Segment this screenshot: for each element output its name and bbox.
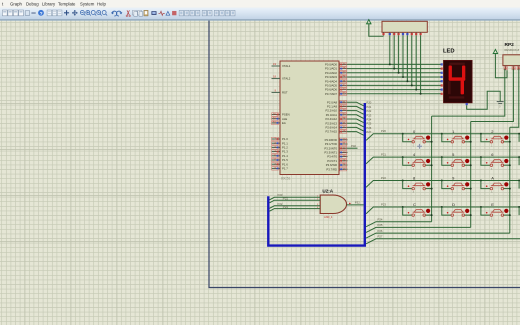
- pin 32 P0.7/AD7: [325, 91, 347, 96]
- push button column 4 partial: [518, 206, 520, 215]
- svg-text:P26: P26: [378, 229, 383, 233]
- push button 4: [402, 152, 433, 171]
- label LED: [443, 49, 455, 55]
- svg-text:P32: P32: [355, 201, 360, 205]
- wire P3.2/INT0 stub: [348, 144, 358, 148]
- pin 16 P3.6/WR: [326, 163, 348, 168]
- RP1 pin 3: [393, 32, 395, 35]
- svg-text:System: System: [80, 1, 95, 6]
- wire RP1 pin 9 to P0.7: [420, 36, 422, 95]
- wire AND input 2: [270, 199, 321, 203]
- net label P20: [278, 193, 283, 197]
- svg-text:P23: P23: [381, 202, 386, 206]
- svg-text:P21: P21: [283, 196, 288, 200]
- wire RP2 pull-up to keypad column 1: [432, 69, 505, 117]
- wire RP1 pin 4 to P0.2: [398, 36, 400, 74]
- mouse move cursor: [417, 143, 423, 149]
- wire AND output to bus: [347, 201, 364, 205]
- svg-text:RST: RST: [282, 91, 288, 95]
- wire RP1 pin 2 to P0.0: [389, 36, 391, 66]
- pin 4 P1.3: [272, 149, 289, 154]
- svg-text:P24: P24: [378, 218, 383, 222]
- 7-segment display: [444, 60, 473, 102]
- wire P2.0 to bus: [348, 101, 372, 106]
- svg-text:D: D: [452, 202, 455, 207]
- svg-text:XTAL1: XTAL1: [282, 64, 291, 68]
- resistor pack RP1: [382, 21, 427, 32]
- wire P2.2 to bus: [348, 109, 372, 114]
- pin 38 P0.1/AD1: [325, 66, 347, 71]
- svg-text:P25: P25: [378, 223, 383, 227]
- push button A: [480, 176, 511, 195]
- svg-text:Debug: Debug: [26, 1, 39, 6]
- wire keypad column 1 vertical: [431, 116, 433, 222]
- RP1 pin 9: [420, 32, 422, 35]
- push button column 4 partial: [518, 133, 520, 142]
- pin 39 P0.0/AD0: [325, 62, 347, 67]
- wire P0.7 to display: [348, 93, 442, 95]
- pin 21 P2.0/A8: [327, 100, 347, 105]
- svg-text:P3.7/RD: P3.7/RD: [326, 167, 337, 171]
- wire P0.1 to display: [348, 68, 442, 70]
- wire keypad column 2 vertical: [470, 122, 472, 228]
- wire P2.3 to bus: [348, 113, 372, 118]
- push button column 4 partial: [518, 180, 520, 189]
- pin 17 P3.7/RD: [326, 167, 347, 172]
- wire P0.4 to display: [348, 80, 442, 82]
- pin 37 P0.2/AD2: [325, 70, 347, 75]
- wire keypad row rail P20: [366, 129, 520, 140]
- pin 5 P1.4: [272, 153, 289, 158]
- RP1 pin 5: [402, 32, 404, 35]
- svg-text:P20: P20: [381, 129, 386, 133]
- push button column 4 partial: [518, 156, 520, 165]
- svg-text:E: E: [491, 202, 494, 207]
- pin 36 P0.3/AD3: [325, 75, 347, 80]
- display pin 7: [441, 89, 443, 91]
- svg-text:P22: P22: [381, 176, 386, 180]
- wire P2.7 to bus: [348, 130, 372, 135]
- wire AND input 4: [270, 207, 321, 211]
- menu bar: [0, 0, 520, 8]
- ground symbol: [497, 102, 504, 109]
- wire keypad column return P24: [366, 218, 432, 227]
- svg-text:Library: Library: [42, 1, 56, 6]
- wire keypad column 3 vertical: [509, 127, 511, 233]
- pin 27 P2.6/A14: [325, 125, 347, 130]
- wire keypad row rail P23: [366, 202, 520, 213]
- pin 22 P2.1/A9: [327, 104, 347, 109]
- pin 7 P1.6: [272, 162, 289, 167]
- wire P0.6 to display: [348, 89, 442, 91]
- wire keypad column return P27: [366, 235, 520, 244]
- svg-text:RESPACK-8: RESPACK-8: [505, 48, 520, 52]
- svg-text:A: A: [491, 176, 494, 181]
- RP2 pin 2: [512, 66, 515, 71]
- pin 3 P1.2: [272, 145, 289, 150]
- wire RP1 pin 6 to P0.4: [406, 36, 408, 83]
- sheet border: [209, 21, 520, 288]
- svg-text:19: 19: [273, 62, 276, 66]
- pin 24 P2.3/A11: [326, 112, 348, 117]
- net label P23: [283, 205, 288, 209]
- pin 12 P3.2/INT0: [324, 146, 347, 151]
- push button 8: [402, 176, 433, 195]
- svg-text:U2:A: U2:A: [322, 189, 333, 194]
- svg-text:P21: P21: [381, 153, 386, 157]
- wire P0.0 to display: [348, 63, 442, 65]
- wire RP1 pin 3 to P0.1: [393, 36, 395, 70]
- svg-text:P27: P27: [378, 235, 383, 239]
- wire keypad row rail P21: [366, 153, 520, 164]
- pin 14 P3.4/T0: [327, 154, 347, 159]
- wire AND input 3: [270, 204, 321, 208]
- wire RP2 pull-up to keypad column 3: [510, 69, 519, 128]
- svg-text:RP2: RP2: [505, 42, 515, 48]
- wire keypad row rail P22: [366, 176, 520, 187]
- display pin 8: [441, 93, 443, 95]
- pin 29 PSEN: [272, 112, 290, 117]
- wire P2.5 to bus: [348, 122, 372, 127]
- RP2 pin 3: [517, 66, 520, 71]
- push button 2: [480, 129, 511, 148]
- resistor pack RP2: [503, 55, 520, 66]
- svg-text:P0.7/AD7: P0.7/AD7: [325, 92, 337, 96]
- pin 8 P1.7: [272, 166, 289, 171]
- svg-text:XTAL2: XTAL2: [282, 77, 291, 81]
- pin 13 P3.3/INT1: [324, 150, 347, 155]
- display pin 3: [441, 72, 443, 74]
- op-amp U2:A AND gate label: [322, 189, 333, 194]
- pin 35 P0.4/AD4: [325, 79, 347, 84]
- AND gate U2:A: [320, 195, 346, 219]
- wire keypad column return P26: [366, 229, 510, 238]
- pin 15 P3.5/T1: [327, 158, 347, 163]
- pin 26 P2.5/A13: [325, 121, 347, 126]
- pin 1 P1.0: [272, 137, 289, 142]
- pin 33 P0.6/AD6: [325, 87, 347, 92]
- pin 31 EA: [272, 121, 286, 126]
- svg-text:P1.7: P1.7: [282, 167, 288, 171]
- pin 25 P2.4/A12: [325, 117, 347, 122]
- push button 9: [441, 176, 472, 195]
- microcontroller U1 80C51: [280, 61, 339, 181]
- svg-text:P2.7/A15: P2.7/A15: [325, 130, 337, 134]
- push button 6: [480, 152, 511, 171]
- wire P0.3 to display: [348, 76, 442, 78]
- power symbol VCC for RP2: [493, 49, 507, 77]
- svg-text:18: 18: [273, 75, 276, 79]
- svg-text:P32: P32: [351, 144, 356, 148]
- svg-text:80C51: 80C51: [281, 177, 291, 181]
- pin 11 P3.1/TXD: [325, 142, 348, 147]
- RP1 pin 8: [415, 32, 417, 35]
- push button 0: [402, 129, 433, 148]
- pin 2 P1.1: [272, 141, 289, 146]
- wire P0.5 to display: [348, 84, 442, 86]
- svg-text:Template: Template: [58, 1, 76, 6]
- RP2 pin 1: [504, 66, 507, 71]
- bus (blue): [268, 103, 365, 246]
- RP1 pin 7: [411, 32, 413, 35]
- toolbar: [0, 8, 520, 21]
- svg-text:?: ?: [40, 11, 43, 16]
- wire P2.6 to bus: [348, 126, 372, 131]
- svg-text:P23: P23: [283, 205, 288, 209]
- RP1 pin 1: [382, 32, 384, 35]
- RP1 pin 4: [398, 32, 400, 35]
- svg-text:LED: LED: [443, 49, 455, 55]
- wire keypad column return P25: [366, 223, 471, 232]
- push button D: [441, 202, 472, 221]
- net label P21: [283, 196, 288, 200]
- power symbol VCC for RP1: [366, 20, 383, 37]
- svg-text:Graph: Graph: [10, 1, 23, 6]
- wire P2.1 to bus: [348, 105, 372, 110]
- display common pin: [466, 103, 468, 105]
- svg-text:Help: Help: [97, 1, 106, 6]
- label RP2: [505, 42, 520, 52]
- wire RP1 pin 8 to P0.6: [415, 36, 417, 91]
- RP1 pin 6: [406, 32, 408, 35]
- pin 23 P2.2/A10: [325, 108, 347, 113]
- push button C: [402, 202, 433, 221]
- pin 18 XTAL2: [272, 75, 291, 81]
- pin 34 P0.5/AD5: [325, 83, 347, 88]
- pin 6 P1.5: [272, 158, 289, 163]
- svg-text:EA: EA: [282, 121, 286, 125]
- pin 30 ALE: [272, 116, 288, 121]
- pin 9 RST: [272, 89, 288, 95]
- svg-text:C: C: [413, 218, 415, 221]
- wire AND input 1: [270, 196, 321, 200]
- display pin 6: [441, 84, 443, 86]
- svg-text:D: D: [452, 218, 454, 221]
- pin 28 P2.7/A15: [325, 129, 347, 134]
- wire RP2 pull-up to keypad column 2: [471, 69, 514, 122]
- svg-text:P27: P27: [366, 130, 371, 134]
- push button 1: [441, 129, 472, 148]
- push button 5: [441, 152, 472, 171]
- RP1 pin 2: [389, 32, 391, 35]
- wire RP1 pin 5 to P0.3: [402, 36, 404, 78]
- display pin 2: [441, 68, 443, 70]
- pin 19 XTAL1: [272, 62, 291, 68]
- svg-text:AND_4: AND_4: [324, 215, 333, 219]
- net label P22: [278, 202, 283, 206]
- wire display common to ground: [467, 91, 501, 109]
- wire RP1 pin 7 to P0.5: [411, 36, 413, 87]
- wire P0.2 to display: [348, 72, 442, 74]
- svg-text:C: C: [413, 202, 416, 207]
- pin 10 P3.0/RXD: [325, 137, 348, 142]
- wire P2.4 to bus: [348, 118, 372, 123]
- display pin 4: [441, 76, 443, 78]
- display pin 1: [441, 63, 443, 65]
- display pin 5: [441, 80, 443, 82]
- push button E: [480, 202, 511, 221]
